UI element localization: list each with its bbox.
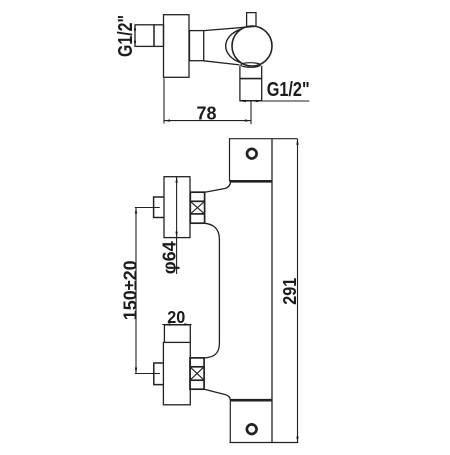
svg-text:78: 78 xyxy=(197,102,217,123)
svg-text:150±20: 150±20 xyxy=(120,260,141,320)
svg-text:20: 20 xyxy=(167,307,185,327)
svg-text:φ64: φ64 xyxy=(160,241,180,274)
svg-text:291: 291 xyxy=(280,278,300,305)
svg-text:G1/2": G1/2" xyxy=(267,79,310,101)
svg-text:G1/2": G1/2" xyxy=(115,15,137,57)
